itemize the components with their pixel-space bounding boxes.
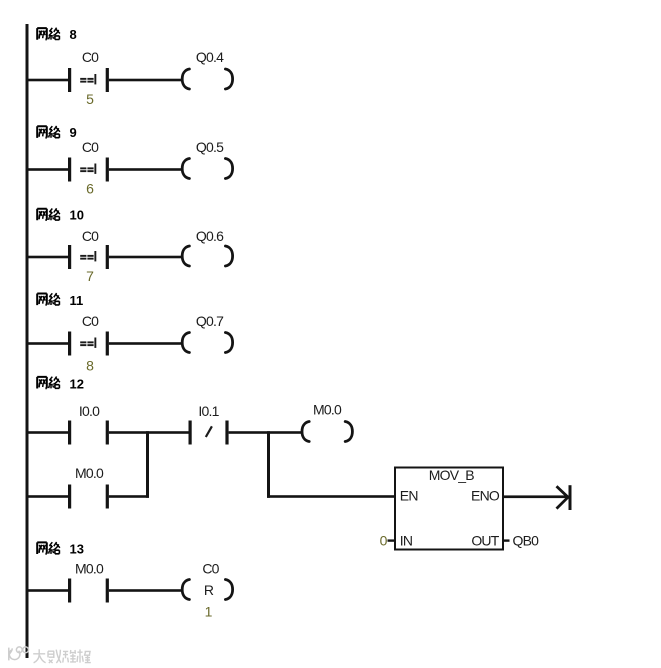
svg-text:C0: C0: [82, 313, 99, 329]
net12 wire tee to MOV_B EN: [267, 495, 394, 498]
MOV_B IN tick wire: [388, 539, 396, 541]
net12 coil M0.0: [302, 422, 352, 442]
network 12 header 网络 12: [37, 377, 60, 389]
ENO output arrow: [557, 485, 571, 510]
svg-text:I0.1: I0.1: [198, 403, 219, 419]
svg-text:Q0.4: Q0.4: [196, 49, 224, 65]
network 13 header 网络 13: [37, 542, 60, 554]
MOV_B pin EN: [400, 488, 418, 504]
svg-text:5: 5: [86, 91, 94, 107]
MOV_B OUT tick wire: [503, 539, 510, 541]
svg-text:C0: C0: [82, 228, 99, 244]
net12 branch contact M0.0: [68, 485, 109, 509]
svg-text:C0: C0: [82, 139, 99, 155]
net13 wire rail to contact: [27, 589, 69, 592]
MOV_B pin OUT: [471, 533, 499, 549]
net12 wire I0.0 to I0.1: [109, 431, 189, 434]
net10 value 7: [86, 268, 94, 284]
svg-text:QB0: QB0: [513, 533, 540, 549]
net9 coil Q0.5: [182, 159, 232, 179]
net12 tee vertical wire to MOV_B EN: [267, 431, 270, 498]
net12 wire rail to contact M0.0: [27, 495, 69, 498]
svg-text:I0.0: I0.0: [79, 403, 100, 419]
net11 value 8: [86, 358, 94, 374]
net12 negated contact I0.1: [189, 421, 229, 445]
net12 contact I0.0: [68, 421, 109, 445]
net9 wire contact to coil: [109, 168, 182, 171]
svg-text:ENO: ENO: [471, 488, 500, 504]
network 9 header 网络 9: [37, 126, 60, 138]
net11 coil Q0.7: [182, 333, 232, 353]
net13 wire contact to coil: [109, 589, 182, 592]
svg-text:9: 9: [70, 125, 77, 140]
svg-text:IN: IN: [400, 533, 412, 549]
network 10 header 网络 10: [37, 208, 60, 220]
net9 value 6: [86, 180, 94, 196]
svg-text:C0: C0: [82, 49, 99, 65]
net12 wire M0.0 to branch join: [109, 495, 149, 498]
net11 contact label C0: [82, 313, 99, 329]
watermark text 大數跨境: [33, 649, 91, 663]
net8 compare contact C0 ==I: [68, 68, 109, 92]
svg-text:M0.0: M0.0: [75, 561, 104, 577]
net13 contact label M0.0: [75, 561, 104, 577]
net12 contact label I0.0: [79, 403, 100, 419]
svg-text:13: 13: [70, 542, 84, 557]
net12 branch contact label M0.0: [75, 465, 104, 481]
MOV_B box: [395, 468, 503, 550]
svg-text:OUT: OUT: [471, 533, 499, 549]
svg-text:M0.0: M0.0: [313, 401, 342, 417]
net10 compare contact C0 ==I: [68, 245, 109, 269]
svg-text:12: 12: [70, 376, 84, 391]
net13 value 1: [205, 604, 213, 620]
net10 wire contact to coil: [109, 256, 182, 259]
MOV_B pin IN: [400, 533, 412, 549]
svg-text:C0: C0: [202, 561, 219, 577]
net9 wire rail to contact: [27, 168, 69, 171]
net8 wire contact to coil: [109, 79, 182, 82]
MOV_B pin ENO: [471, 488, 500, 504]
net9 contact label C0: [82, 139, 99, 155]
svg-text:Q0.7: Q0.7: [196, 313, 224, 329]
svg-text:1: 1: [205, 604, 213, 620]
net13 reset coil C0 R: [182, 580, 232, 600]
net8 coil Q0.4: [182, 69, 232, 89]
svg-text:MOV_B: MOV_B: [429, 467, 474, 483]
net8 contact label C0: [82, 49, 99, 65]
net9 compare contact C0 ==I: [68, 158, 109, 182]
watermark logo: [9, 647, 29, 661]
svg-text:11: 11: [70, 293, 84, 308]
net12 contact label I0.1: [198, 403, 219, 419]
network 8 header 网络 8: [37, 28, 60, 40]
svg-text:0: 0: [380, 533, 388, 549]
MOV_B ENO output wire: [503, 495, 567, 498]
svg-text:Q0.6: Q0.6: [196, 228, 224, 244]
net11 wire rail to contact: [27, 342, 69, 345]
svg-text:6: 6: [86, 180, 94, 196]
net10 contact label C0: [82, 228, 99, 244]
net12 wire rail to contact I0.0: [27, 431, 69, 434]
svg-text:EN: EN: [400, 488, 418, 504]
MOV_B title: [429, 467, 474, 483]
left power rail: [26, 24, 29, 658]
svg-text:7: 7: [86, 268, 94, 284]
svg-text:Q0.5: Q0.5: [196, 139, 224, 155]
svg-text:M0.0: M0.0: [75, 465, 104, 481]
net10 coil Q0.6: [182, 246, 232, 266]
net8 wire rail to contact: [27, 79, 69, 82]
net12 branch join vertical wire: [146, 431, 149, 498]
net13 contact M0.0: [68, 579, 109, 603]
net10 wire rail to contact: [27, 256, 69, 259]
net8 value 5: [86, 91, 94, 107]
svg-text:R: R: [204, 582, 214, 598]
MOV_B IN value 0: [380, 533, 388, 549]
MOV_B OUT operand QB0: [513, 533, 540, 549]
net11 compare contact C0 ==I: [68, 332, 109, 356]
network 11 header 网络 11: [37, 293, 60, 305]
net11 wire contact to coil: [109, 342, 182, 345]
svg-text:8: 8: [70, 27, 77, 42]
svg-text:8: 8: [86, 358, 94, 374]
svg-text:10: 10: [70, 208, 84, 223]
net12 wire I0.1 to coil M0.0: [229, 431, 302, 434]
